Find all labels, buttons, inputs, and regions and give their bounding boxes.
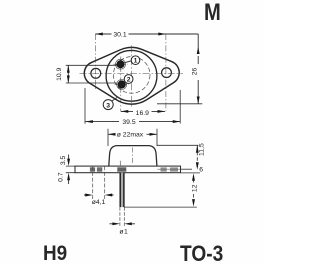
pin circle dashed (113, 57, 150, 94)
callout 1 leader (124, 61, 132, 63)
svg-text:30.1: 30.1 (113, 31, 126, 38)
pins side view (121, 173, 124, 207)
pin 1 (emitter) pad (116, 59, 126, 69)
label TO-3 (180, 241, 223, 267)
flange step line right (157, 168, 180, 170)
hole centerline extensions to 30.1 (94, 34, 96, 89)
svg-text:12: 12 (191, 184, 198, 192)
can body side view (109, 146, 157, 166)
pin 2 centerline dash (115, 84, 130, 86)
flange side view (75, 166, 181, 173)
svg-text:1: 1 (134, 58, 138, 65)
mounting hole left (91, 68, 101, 78)
pin 1 centerline dash (114, 63, 129, 65)
callout 3 leader (112, 98, 117, 102)
pin 2 (base) pad (117, 80, 127, 90)
can centerline side (132, 148, 134, 165)
dim 0.7 arrow (68, 180, 70, 184)
ext lines 39.5 (85, 88, 180, 124)
flange seal hatch left (90, 167, 95, 171)
pin hidden line above flange (119, 161, 121, 166)
svg-text:10.9: 10.9 (56, 67, 63, 80)
dim phi1 ext lines (120, 207, 124, 226)
ext line flange bottom right (181, 172, 200, 174)
svg-text:26: 26 (191, 68, 198, 76)
dim 16.9 (121, 110, 165, 112)
ext line flange top right (181, 168, 192, 170)
dim phi4.1 arrows (84, 194, 114, 196)
label H9 (43, 242, 67, 266)
svg-text:6: 6 (199, 166, 203, 173)
dim 26 vertical (197, 34, 199, 104)
flange seal hatch right (161, 167, 167, 171)
dim 12 (192, 173, 195, 181)
vertical centerline of can (130, 46, 132, 107)
svg-text:16.9: 16.9 (136, 110, 149, 117)
dim phi22max (108, 133, 157, 135)
svg-text:ø4,1: ø4,1 (92, 199, 106, 206)
dim 10.9 (67, 65, 69, 83)
svg-text:3.5: 3.5 (60, 155, 67, 165)
svg-text:ø 22max: ø 22max (117, 132, 144, 139)
ext lines flange left (66, 166, 75, 173)
ext line pin bottom (124, 206, 197, 208)
ext line 26 bottom (157, 103, 202, 105)
dim 30.1 line (95, 33, 198, 35)
callout 1 (131, 56, 140, 65)
callout 3 (103, 100, 113, 110)
callout 2 leader (124, 81, 126, 82)
svg-text:11,5: 11,5 (199, 143, 206, 156)
label M (204, 0, 221, 27)
svg-text:3: 3 (106, 102, 110, 109)
dim 11.5 (196, 145, 198, 151)
callout 2 (124, 75, 133, 84)
horizontal centerline through holes (80, 73, 184, 75)
pin centerline vertical (120, 57, 122, 112)
dim phi1 arrows (110, 223, 136, 225)
dim 39.5 (85, 121, 180, 123)
hole hidden lines phi4.1 (93, 166, 105, 199)
svg-text:ø1: ø1 (119, 229, 128, 236)
svg-text:0.7: 0.7 (58, 172, 65, 182)
svg-text:2: 2 (127, 77, 131, 84)
mounting hole right (162, 68, 172, 78)
dim 3.5 arrow (68, 155, 70, 160)
svg-text:39.5: 39.5 (122, 119, 135, 126)
dim 6 arrow (196, 164, 198, 168)
ext line can top right (157, 144, 199, 146)
flange seal hatch center (117, 167, 126, 171)
TO-3 flange outline (top view) (84, 47, 179, 104)
can circle (top view) (106, 50, 157, 101)
